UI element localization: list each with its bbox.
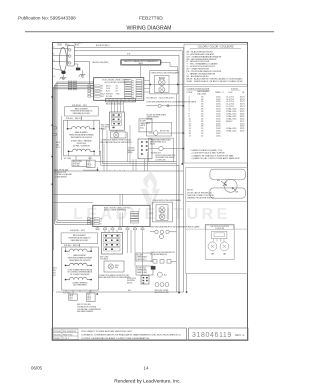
ground chassis right xyxy=(79,75,86,77)
wire to chassis ground xyxy=(63,75,65,78)
right riser wires xyxy=(176,94,179,292)
svg-text:R-LT: R-LT xyxy=(70,299,73,301)
lower coil 2 dots xyxy=(65,265,66,266)
svg-text:BK-W: BK-W xyxy=(115,265,120,267)
svg-text:W-LT: W-LT xyxy=(88,163,91,165)
svg-text:W-R 240V: W-R 240V xyxy=(73,163,80,165)
color legend box xyxy=(184,44,247,84)
timer title box xyxy=(121,59,162,65)
svg-text:R-LT MDL: R-LT MDL xyxy=(106,96,113,98)
caution notes box xyxy=(52,328,187,341)
EOC inner left pin labels xyxy=(101,86,105,98)
svg-text:(BK-W): (BK-W) xyxy=(127,282,132,284)
relay board K2 lower xyxy=(102,233,123,255)
lower coil 3 xyxy=(66,277,92,279)
svg-text:CODE: CODE xyxy=(187,92,193,94)
convection fan label upper xyxy=(100,139,132,144)
svg-text:BK-W: BK-W xyxy=(53,268,58,270)
oven control EOC upper xyxy=(94,78,144,101)
wire anti-tip xyxy=(83,167,98,170)
svg-text:P/N 318046119: P/N 318046119 xyxy=(63,331,76,333)
svg-text:(EL MOTOR): (EL MOTOR) xyxy=(215,228,224,230)
latch switch cluster xyxy=(155,283,169,287)
svg-text:(BK): (BK) xyxy=(115,267,119,269)
svg-text:RED/ROUGE (RED): RED/ROUGE (RED) xyxy=(92,62,109,64)
lower broil label box xyxy=(61,233,98,244)
junction lower connector xyxy=(97,293,98,294)
svg-text:MODEL: MODEL xyxy=(54,334,61,336)
lower column contact row xyxy=(150,260,176,264)
svg-text:2850W 240V: 2850W 240V xyxy=(77,143,87,145)
convection fan label lower xyxy=(98,274,130,279)
svg-text:OVEN DOOR SW./INTERRUPTOR: OVEN DOOR SW./INTERRUPTOR xyxy=(151,252,176,254)
svg-text:W-LT: W-LT xyxy=(56,147,60,149)
EOC lower bottom pin stubs xyxy=(98,227,143,229)
wire L1 BLK top run xyxy=(74,47,183,292)
side note left of elements xyxy=(56,142,61,149)
side note left lower elements xyxy=(53,268,58,277)
svg-text:BK: BK xyxy=(100,218,102,220)
svg-text:(BK-W): (BK-W) xyxy=(128,152,133,154)
relay board labels lower xyxy=(100,256,109,260)
svg-text:1 OF 1: 1 OF 1 xyxy=(63,338,69,340)
svg-text:Publication No: 5995443398: Publication No: 5995443398 xyxy=(18,16,76,21)
svg-text:FEB27T6D: FEB27T6D xyxy=(139,16,163,22)
EOC lower left pin tags xyxy=(87,218,90,225)
svg-text:P2: P2 xyxy=(132,83,134,85)
svg-text:BROIL ELEMENT: BROIL ELEMENT xyxy=(75,108,88,110)
svg-text:R-LT: R-LT xyxy=(101,96,104,98)
svg-text:W-LT: W-LT xyxy=(53,272,57,274)
svg-text:R-LT: R-LT xyxy=(88,166,91,168)
svg-text:B-LT: B-LT xyxy=(88,294,91,296)
color legend title xyxy=(190,46,241,49)
element connector CN1 xyxy=(72,160,87,167)
section divider upper xyxy=(52,170,184,171)
wire timer to lamp housing xyxy=(161,62,178,70)
svg-text:(BK): (BK) xyxy=(56,144,60,146)
door latch note text xyxy=(187,190,215,200)
svg-text:(BK) (W): (BK) (W) xyxy=(147,118,153,120)
svg-text:REV. A: REV. A xyxy=(235,333,244,337)
terminal block TB1 xyxy=(68,46,75,66)
door lock motor detail xyxy=(205,224,234,259)
bottom rail stub wires xyxy=(66,290,91,292)
svg-text:FEB27T6D: FEB27T6D xyxy=(63,334,73,336)
svg-text:R-LT (BK): R-LT (BK) xyxy=(73,165,80,167)
lower coil 3 dots xyxy=(65,279,66,280)
relay board K1 upper xyxy=(110,112,125,130)
EOC left pin stubs xyxy=(91,86,94,96)
svg-text:BK-W SOME: BK-W SOME xyxy=(73,161,82,163)
svg-text:BK-W: BK-W xyxy=(56,142,61,144)
svg-text:R: R xyxy=(101,91,102,93)
light switch upper xyxy=(146,104,184,107)
svg-text:(UPPER / SUPERIOR): (UPPER / SUPERIOR) xyxy=(73,145,90,147)
EOC lower left pin stubs xyxy=(90,219,93,224)
svg-text:LIMITE/LIMITEUR: LIMITE/LIMITEUR xyxy=(147,116,160,118)
thermal switch labels xyxy=(147,113,167,120)
lower element internal wires xyxy=(66,244,92,294)
svg-text:(BK): (BK) xyxy=(53,270,57,272)
latch box divider xyxy=(186,201,248,203)
EOC to lamp stubs xyxy=(144,81,150,93)
wire code table box xyxy=(184,86,247,163)
svg-text:R-LT: R-LT xyxy=(53,275,56,277)
svg-text:BK-W (BK) 8-LT (W) 4-LT: BK-W (BK) 8-LT (W) 4-LT xyxy=(106,104,124,106)
svg-text:P1: P1 xyxy=(132,80,134,82)
svg-text:BK/Y CONN: BK/Y CONN xyxy=(101,125,109,127)
thermal switch box upper oven xyxy=(147,122,184,136)
cooling fan relay labels xyxy=(128,148,136,154)
cooling fan box xyxy=(139,119,152,132)
svg-text:+ QUAND LE CAL. 8 EST UTILISE: + QUAND LE CAL. 8 EST UTILISE AVEC MANCH… xyxy=(191,157,240,160)
power cord xyxy=(60,47,67,71)
svg-text:BK-W DLB: BK-W DLB xyxy=(106,93,113,95)
EOC pin header column P2 xyxy=(136,80,142,99)
svg-text:2-LT: 2-LT xyxy=(116,91,119,93)
svg-text:HI-LIMIT: HI-LIMIT xyxy=(140,121,146,123)
door latch detail box xyxy=(186,168,248,274)
svg-text:BLK/NOIR (BLK): BLK/NOIR (BLK) xyxy=(96,45,110,47)
svg-text:W-R (BK/W) ... (W-T): W-R (BK/W) ... (W-T) xyxy=(70,230,85,232)
wires EOC to relay board xyxy=(112,100,124,112)
svg-text:LIMITE: LIMITE xyxy=(140,125,145,127)
svg-text:(EOC) LOWER / INFERIOR: (EOC) LOWER / INFERIOR xyxy=(104,210,127,212)
svg-text:DOOR LOCK: DOOR LOCK xyxy=(137,268,146,270)
gnd lug xyxy=(76,68,80,71)
svg-text:BROIL ELEMENT: BROIL ELEMENT xyxy=(73,235,86,237)
watermark logo flame xyxy=(141,171,160,205)
svg-text:CONV: CONV xyxy=(116,93,120,95)
lower coil 3 sublabel xyxy=(72,282,87,286)
svg-text:P5: P5 xyxy=(132,90,134,92)
EOC lower pin column xyxy=(131,212,139,224)
svg-text:W-R (BK) ... (BK) R-LT: W-R (BK) ... (BK) R-LT xyxy=(64,245,80,247)
lower lamp inner frame xyxy=(156,205,168,221)
connector strip J1 xyxy=(106,99,136,106)
svg-text:DEL PESTILLO (BK): DEL PESTILLO (BK) xyxy=(155,292,169,294)
supply stub wires xyxy=(52,48,70,70)
door latch bracket upper xyxy=(210,169,246,179)
wire code table headers xyxy=(187,88,246,95)
svg-text:B-LT: B-LT xyxy=(164,274,167,276)
svg-text:P7: P7 xyxy=(132,95,134,97)
lower broil label text xyxy=(69,235,92,242)
wire TB to gnd lug xyxy=(74,64,78,68)
section divider lower xyxy=(52,193,184,195)
oven lamp L1 xyxy=(159,79,166,86)
svg-text:INTERRUPTOR: INTERRUPTOR xyxy=(55,172,67,174)
svg-text:THE DOOR LOCK MOTOR: THE DOOR LOCK MOTOR xyxy=(211,226,230,228)
svg-text:+ CUANDO SE USA GA.8 Y SLEEVE: + CUANDO SE USA GA.8 Y SLEEVE DE 3MM xyxy=(191,154,234,157)
anti-tip note xyxy=(55,169,73,179)
svg-text:06/05: 06/05 xyxy=(31,366,43,371)
left border tag rects xyxy=(53,127,57,129)
oven control EOC lower xyxy=(93,205,150,226)
lower column junction block xyxy=(151,266,156,270)
left harness tags xyxy=(68,81,76,90)
EOC lower inner verticals xyxy=(120,213,123,227)
svg-text:P4: P4 xyxy=(132,88,134,90)
lock switch block xyxy=(141,276,149,285)
lower coil 1 dots xyxy=(65,251,66,252)
EOC lower title xyxy=(104,207,131,211)
wire bundle to lamp column xyxy=(99,129,179,166)
svg-text:LIMITE (N.C.): LIMITE (N.C.) xyxy=(137,259,147,261)
caution notes logo table xyxy=(54,329,79,340)
wire latch box drop xyxy=(186,274,188,292)
hi-limit box lower xyxy=(136,253,152,261)
svg-text:R-2 L2: R-2 L2 xyxy=(106,91,110,93)
broil coil terminal dots xyxy=(67,128,68,129)
svg-text:BK/Y CONN: BK/Y CONN xyxy=(100,256,108,258)
svg-text:P3: P3 xyxy=(132,85,134,87)
EOC mid pin labels xyxy=(132,80,134,99)
door latch bracket lower xyxy=(210,188,246,198)
oven light housing upper xyxy=(150,71,178,94)
broil element label box xyxy=(65,107,99,116)
element connector CN2 xyxy=(87,160,95,168)
ground chassis left xyxy=(60,77,67,79)
svg-text:BK: BK xyxy=(101,86,103,88)
wire lamp feed xyxy=(144,84,184,86)
svg-text:CAL./DIM.: CAL./DIM. xyxy=(197,92,207,95)
svg-text:(N.C.): (N.C.) xyxy=(140,127,144,129)
svg-text:SW./INTER.: SW./INTER. xyxy=(127,280,136,282)
wires divider to EOC lower xyxy=(120,194,123,205)
lower lamp L3 xyxy=(159,207,165,213)
EOC inner wire list xyxy=(106,86,120,98)
svg-text:W-4 N: W-4 N xyxy=(106,88,110,90)
junction anti-tip xyxy=(97,169,98,170)
svg-text:CORTAR EL CORRIENTE ANTES DE R: CORTAR EL CORRIENTE ANTES DE REALIZAR EL… xyxy=(81,333,182,336)
caution notes text xyxy=(81,331,182,340)
color legend entries xyxy=(187,50,244,82)
svg-text:BK W BK-W R: BK W BK-W R xyxy=(151,153,162,155)
central riser wires xyxy=(104,125,148,171)
wire RED run xyxy=(74,61,89,83)
wire timer to EOC xyxy=(140,65,142,78)
lower element labels top xyxy=(70,230,85,232)
bake element coil xyxy=(69,149,95,151)
svg-text:+ CODE WITH GA.8 & MIN. SLEEVE: + CODE WITH GA.8 & MIN. SLEEVE xyxy=(191,152,226,155)
svg-text:DISCONNECT POWER BEFORE SERVIC: DISCONNECT POWER BEFORE SERVICING UNIT. xyxy=(81,331,133,333)
EOC lower bottom pin tags xyxy=(96,228,144,230)
part number box xyxy=(189,328,249,341)
EOC left pin tags xyxy=(88,85,91,97)
wire connector to right xyxy=(95,161,176,163)
terminal box lower xyxy=(136,266,153,275)
wire L2 run xyxy=(74,55,179,292)
svg-text:FRIGID.: FRIGID. xyxy=(54,331,61,333)
oven lamp L2 xyxy=(159,87,165,93)
lower lamp L4 xyxy=(159,214,165,220)
lower connector CN3 xyxy=(69,294,77,301)
relay board labels upper xyxy=(101,125,110,131)
lower elements enclosure xyxy=(62,247,99,290)
wire into lock detail right xyxy=(234,228,248,230)
svg-text:COAL-/150: COAL-/150 xyxy=(226,130,237,133)
strain relief xyxy=(61,71,65,74)
svg-text:318046119: 318046119 xyxy=(192,332,232,339)
EOC pin header column P1 xyxy=(125,80,132,99)
svg-text:CON. BK-W: CON. BK-W xyxy=(100,258,109,260)
bottom section rail xyxy=(56,291,184,293)
wire code table rows xyxy=(189,96,246,137)
svg-text:BK 150°C BK: BK 150°C BK xyxy=(160,131,169,133)
supply line labels xyxy=(53,47,55,62)
svg-text:HI-LIMIT: HI-LIMIT xyxy=(137,255,143,257)
wire element box left drop xyxy=(61,116,63,160)
lower connector CN4 xyxy=(87,293,95,301)
svg-text:WIRING DIAGRAM: WIRING DIAGRAM xyxy=(127,26,172,32)
svg-text:DE CONVECTION 2850W: DE CONVECTION 2850W xyxy=(70,274,90,276)
wire into lock detail left xyxy=(186,228,205,230)
svg-text:DOOR LATCH SHOWN IN: DOOR LATCH SHOWN IN xyxy=(187,191,212,194)
svg-text:TEMP. °C: TEMP. °C xyxy=(215,92,224,94)
svg-text:Rendered by LeadVenture, Inc.: Rendered by LeadVenture, Inc. xyxy=(114,379,180,385)
diagram outer border xyxy=(53,43,248,341)
junction dots lamp feed xyxy=(150,84,151,85)
left harness bus wires xyxy=(53,82,94,292)
svg-text:(ERC): (ERC) xyxy=(138,63,143,65)
wire left bus to EOC lower xyxy=(53,202,93,204)
junction dots risers mid xyxy=(183,105,184,106)
left border dots xyxy=(52,96,53,97)
svg-text:4-LT: 4-LT xyxy=(116,88,119,90)
wire code table notes xyxy=(191,149,240,160)
broil element label text xyxy=(71,108,94,115)
lock switch labels xyxy=(127,278,136,284)
lower coil 1 xyxy=(66,249,92,251)
broil element coil xyxy=(68,127,94,129)
upper elements enclosure xyxy=(64,120,100,156)
svg-text:P6: P6 xyxy=(132,92,134,94)
svg-text:(BK-W): (BK-W) xyxy=(150,144,155,146)
svg-text:COOLING: COOLING xyxy=(128,148,136,150)
oven light inner frame upper xyxy=(155,76,170,93)
lower light switch row xyxy=(150,230,176,239)
svg-text:W-LT: W-LT xyxy=(88,296,91,298)
wires EOC lower to relay xyxy=(105,230,143,276)
svg-text:B-LT: B-LT xyxy=(88,161,91,163)
svg-text:COV.: COV. xyxy=(228,92,233,94)
svg-text:(14 CIRCUITS): (14 CIRCUITS) xyxy=(156,159,167,161)
svg-text:CON. BK-W: CON. BK-W xyxy=(101,127,110,129)
cooling fan relay box xyxy=(138,139,152,159)
svg-text:(LOWER / INFERIOR): (LOWER / INFERIOR) xyxy=(72,282,87,284)
svg-text:W-LT (BK) 8-LT ... (W) 4-LT (B: W-LT (BK) 8-LT ... (W) 4-LT (BK-W) R-LT xyxy=(147,98,175,100)
svg-text:B-LT: B-LT xyxy=(128,290,131,292)
svg-text:VERROU (BK): VERROU (BK) xyxy=(137,272,147,274)
svg-text:8-LT: 8-LT xyxy=(116,86,119,88)
svg-text:SHEET: SHEET xyxy=(54,338,61,340)
bake element label text xyxy=(69,131,94,147)
svg-text:W-BK : WHITE-BLACK / BLANCO-: W-BK : WHITE-BLACK / BLANCO-NEGRO / BLAN… xyxy=(187,80,244,83)
svg-text:R-LT: R-LT xyxy=(88,299,91,301)
wire N white run xyxy=(74,51,182,164)
lower coil 2 xyxy=(66,263,92,265)
lower column switch xyxy=(157,272,162,277)
timer title text xyxy=(123,60,158,65)
lower anti-tip note xyxy=(77,303,101,313)
lower conv element label xyxy=(67,268,93,276)
svg-text:SEW-2: SEW-2 xyxy=(226,121,233,123)
EOC title xyxy=(103,80,130,84)
svg-text:R: R xyxy=(100,224,101,226)
svg-text:COUPEZ L ALIMENTATION AVANT D: COUPEZ L ALIMENTATION AVANT D EFFECTUER … xyxy=(81,337,150,340)
svg-text:DOOR LOCK: DOOR LOCK xyxy=(127,278,136,280)
svg-text:105C: 105C xyxy=(216,136,221,138)
lower lamp housing xyxy=(153,202,173,222)
lower column notes xyxy=(151,252,176,256)
EOC lower inner left pins xyxy=(94,218,100,225)
door latch cam xyxy=(224,179,237,192)
element internal wires xyxy=(68,116,95,160)
lower bake label text xyxy=(68,254,93,262)
door latch pointer labels xyxy=(221,181,236,191)
svg-text:(BLK): (BLK) xyxy=(75,45,80,47)
oven lamp L1 base xyxy=(159,77,164,79)
EOC inner left pin column xyxy=(95,85,101,97)
thermal switch box lower oven xyxy=(149,138,184,162)
convection fan box upper xyxy=(110,132,126,138)
bake coil terminal dots xyxy=(68,151,69,152)
svg-text:VIEWED FROM THE FRONT: VIEWED FROM THE FRONT xyxy=(187,198,215,200)
wire gnd lug to ground xyxy=(82,70,84,74)
convection fan box lower xyxy=(104,261,124,272)
latch switch cluster labels xyxy=(155,289,170,294)
header rule xyxy=(25,31,274,33)
svg-text:14: 14 xyxy=(144,366,149,371)
junction dot legend corner xyxy=(182,163,184,165)
svg-text:W-R (BK) ... (BK) R-LT: W-R (BK) ... (BK) R-LT xyxy=(66,118,82,120)
wire ERC to lamp xyxy=(150,212,153,214)
junction dots bottom rail xyxy=(178,292,180,294)
power cord labels xyxy=(58,43,83,47)
svg-text:CUANDO/CUANDO/QUAND: "P.N.": CUANDO/CUANDO/QUAND: "P.N." xyxy=(191,149,224,152)
svg-text:BK-7 L1: BK-7 L1 xyxy=(106,86,111,88)
svg-text:MOLEX CONN./CONECTOR: MOLEX CONN./CONECTOR xyxy=(156,155,176,157)
svg-text:W-LT: W-LT xyxy=(70,297,73,299)
svg-text:W-LT (BK): W-LT (BK) xyxy=(64,158,72,160)
